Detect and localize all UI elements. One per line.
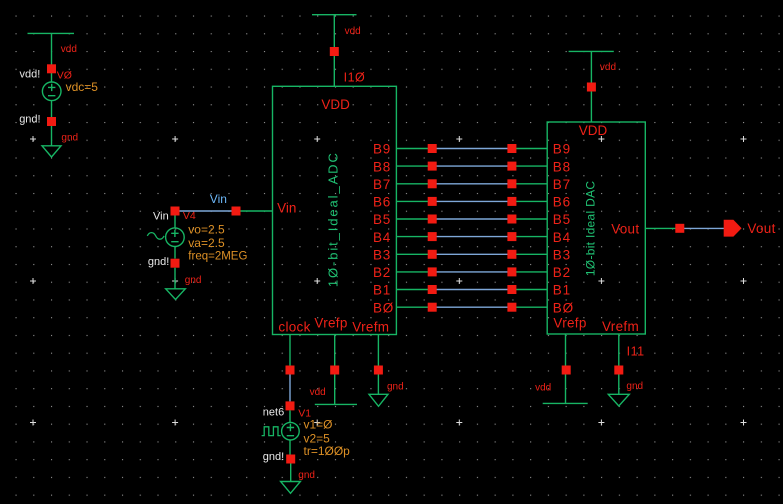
junction square Vin wire <box>232 207 241 216</box>
wire DAC Vrefp down <box>565 334 567 403</box>
wire Vout blue <box>680 227 724 229</box>
svg-text:B7: B7 <box>553 177 571 192</box>
pin labels B9-B0 of DAC <box>553 142 574 316</box>
wire bus bit B5 <box>397 218 548 220</box>
svg-text:gnd!: gnd! <box>263 451 284 463</box>
junction square B1 right <box>507 285 516 294</box>
svg-text:vdc=5: vdc=5 <box>66 80 99 94</box>
svg-text:BØ: BØ <box>553 300 574 315</box>
svg-text:VDD: VDD <box>579 123 608 138</box>
junction square B9 left <box>428 144 437 153</box>
svg-text:Vout: Vout <box>611 222 639 237</box>
pin square ADC Vrefp <box>330 366 339 375</box>
vdd symbol above DAC <box>569 51 614 122</box>
wire bus bit B0 <box>397 306 548 308</box>
svg-text:Vrefp: Vrefp <box>314 316 347 331</box>
ground symbol at ADC Vrefm <box>369 394 388 406</box>
svg-text:Vrefp: Vrefp <box>553 316 586 331</box>
DAC block I11 <box>547 122 645 334</box>
svg-text:gnd: gnd <box>61 132 78 143</box>
svg-text:Vin: Vin <box>277 200 296 215</box>
svg-text:Vin: Vin <box>153 211 169 223</box>
svg-text:B8: B8 <box>553 159 571 174</box>
junction square B5 right <box>507 215 516 224</box>
junction square B8 left <box>428 162 437 171</box>
wire Vout green <box>646 227 681 229</box>
wire ADC Vrefm down <box>377 335 379 395</box>
svg-text:V4: V4 <box>183 210 196 222</box>
pin square ADC VDD <box>330 47 339 56</box>
svg-text:B4: B4 <box>373 230 391 245</box>
svg-text:Vrefm: Vrefm <box>602 319 639 334</box>
junction square B1 left <box>428 285 437 294</box>
svg-text:B7: B7 <box>373 177 391 192</box>
junction square B3 right <box>507 250 516 259</box>
svg-text:net6: net6 <box>263 407 284 419</box>
wire bus bit B3 <box>397 253 548 255</box>
svg-text:B5: B5 <box>373 212 391 227</box>
svg-text:I11: I11 <box>627 345 645 359</box>
ADC block I10 <box>273 86 397 334</box>
ground symbol below V0 <box>42 146 61 157</box>
junction square B5 left <box>428 215 437 224</box>
vdd symbol of source V0 <box>28 33 75 82</box>
svg-text:vdd: vdd <box>535 382 551 393</box>
svg-text:I1Ø: I1Ø <box>344 70 366 84</box>
pin square V4 minus <box>171 259 180 268</box>
junction square B7 left <box>428 179 437 188</box>
pin square ADC Vrefm <box>374 366 383 375</box>
ground symbol below V4 <box>166 289 186 300</box>
pin square V4 plus <box>171 207 180 216</box>
svg-text:B9: B9 <box>553 142 571 157</box>
svg-text:gnd: gnd <box>298 470 315 481</box>
svg-text:B1: B1 <box>373 283 391 298</box>
junction square B6 right <box>507 197 516 206</box>
pin square V1 plus <box>286 401 295 410</box>
svg-text:B1: B1 <box>553 283 571 298</box>
junction square B2 right <box>507 267 516 276</box>
svg-text:B9: B9 <box>373 142 391 157</box>
wire bus bit B9 <box>397 148 548 150</box>
svg-text:B3: B3 <box>553 248 571 263</box>
junction square B8 right <box>507 162 516 171</box>
pin square V1 minus <box>286 455 295 464</box>
wire net6 (blue) <box>289 375 291 402</box>
svg-text:gnd!: gnd! <box>148 256 169 268</box>
pin square V0 plus <box>47 64 56 73</box>
voltage source V0 <box>42 82 61 101</box>
vdd bar symbol at DAC Vrefp <box>543 402 588 404</box>
svg-text:B2: B2 <box>553 265 571 280</box>
svg-text:va=2.5: va=2.5 <box>188 236 225 250</box>
svg-text:freq=2MEG: freq=2MEG <box>188 251 247 263</box>
junction square B0 left <box>428 303 437 312</box>
svg-text:B6: B6 <box>373 195 391 210</box>
pin square V0 minus <box>47 117 56 126</box>
svg-text:B3: B3 <box>373 248 391 263</box>
wire bus bit B4 <box>397 236 548 238</box>
wire DAC Vrefm down <box>618 334 620 394</box>
svg-text:gnd: gnd <box>185 275 202 286</box>
junction square B7 right <box>507 179 516 188</box>
junction square B9 right <box>507 144 516 153</box>
wire bus bit B2 <box>397 271 548 273</box>
svg-text:vdd!: vdd! <box>20 69 41 81</box>
output pin Vout <box>724 220 742 237</box>
svg-text:vdd: vdd <box>600 62 616 73</box>
svg-text:gnd!: gnd! <box>19 114 40 126</box>
svg-text:VDD: VDD <box>321 97 350 112</box>
junction square B3 left <box>428 250 437 259</box>
svg-text:B6: B6 <box>553 195 571 210</box>
wire Vin net (blue) <box>175 210 236 212</box>
wire clock from ADC <box>289 335 291 371</box>
vdd symbol above ADC <box>312 15 357 87</box>
svg-text:Vin: Vin <box>210 192 227 206</box>
svg-text:gnd: gnd <box>626 381 643 392</box>
pulse icon of V1 <box>262 427 281 436</box>
wire bus bit B6 <box>397 200 548 202</box>
svg-text:tr=1ØØp: tr=1ØØp <box>304 444 351 458</box>
svg-text:vdd: vdd <box>345 26 361 37</box>
svg-text:vdd: vdd <box>310 387 326 398</box>
wire V0 bottom <box>51 101 53 146</box>
pin square DAC VDD <box>587 83 596 92</box>
pin square DAC Vrefp <box>562 366 571 375</box>
sine icon of V4 <box>147 233 164 240</box>
wire bus bit B1 <box>397 289 548 291</box>
pin square ADC clock <box>286 366 295 375</box>
grid major crosses <box>30 136 747 426</box>
ground symbol below V1 <box>281 482 301 494</box>
svg-text:vdd: vdd <box>61 44 77 55</box>
wire ADC Vrefp down <box>334 335 336 405</box>
svg-text:B8: B8 <box>373 159 391 174</box>
svg-text:gnd: gnd <box>387 382 404 393</box>
svg-text:B5: B5 <box>553 212 571 227</box>
svg-text:Vrefm: Vrefm <box>352 319 389 334</box>
svg-text:B4: B4 <box>553 230 571 245</box>
junction square B2 left <box>428 267 437 276</box>
voltage source V1 <box>282 410 300 454</box>
pin labels B9-B0 of ADC <box>373 142 394 316</box>
ground symbol at DAC Vrefm <box>608 394 629 406</box>
junction square B0 right <box>507 303 516 312</box>
svg-text:B2: B2 <box>373 265 391 280</box>
wire bus bit B7 <box>397 183 548 185</box>
junction square B4 right <box>507 232 516 241</box>
svg-text:BØ: BØ <box>373 300 394 315</box>
vdd bar symbol at ADC Vrefp <box>315 403 357 405</box>
wire Vin to ADC <box>236 210 273 212</box>
voltage source V4 <box>166 216 185 259</box>
svg-text:1Ø-bit Ideal DAC: 1Ø-bit Ideal DAC <box>584 181 598 277</box>
junction square B6 left <box>428 197 437 206</box>
svg-text:vo=2.5: vo=2.5 <box>188 222 225 236</box>
pin square DAC Vrefm <box>614 366 623 375</box>
wire V4 to ground <box>174 268 176 289</box>
junction square Vout <box>675 224 684 233</box>
svg-text:Vout: Vout <box>747 221 775 236</box>
wire bus bit B8 <box>397 165 548 167</box>
wire V1 to ground <box>290 464 292 482</box>
svg-text:clock: clock <box>278 320 310 335</box>
svg-text:1Ø-bit_Ideal_ADC: 1Ø-bit_Ideal_ADC <box>326 151 341 287</box>
svg-text:v1=Ø: v1=Ø <box>304 418 333 432</box>
junction square B4 left <box>428 232 437 241</box>
